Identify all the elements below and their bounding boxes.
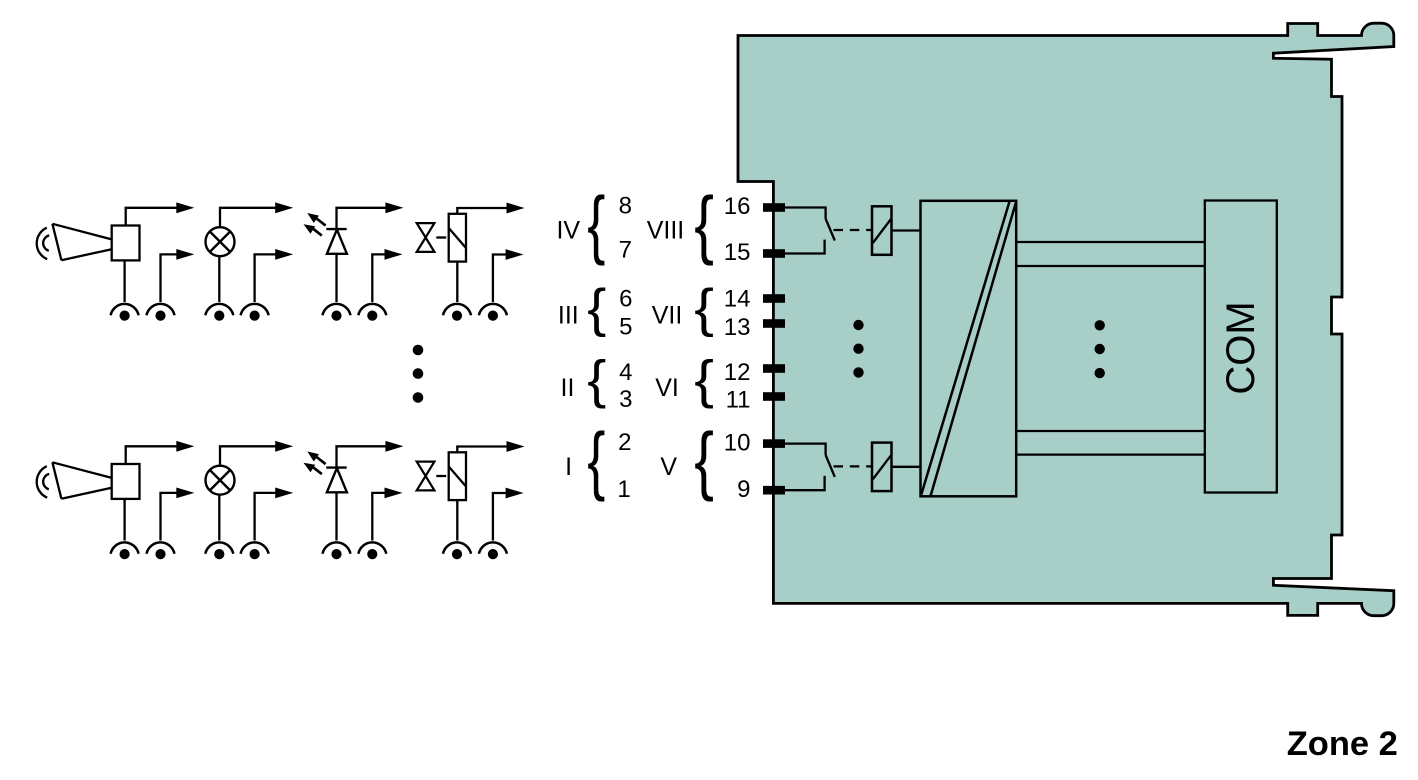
LED emission arrow 1 (307, 213, 325, 226)
solenoid coil Y2 (449, 452, 466, 500)
svg-text:10: 10 (724, 430, 751, 457)
svg-text:13: 13 (724, 314, 751, 341)
arrow (176, 488, 194, 499)
wire LED to terminal (335, 492, 337, 540)
wire from terminal 16 to switch S1 (785, 208, 826, 219)
switch S2 blade (826, 455, 835, 477)
LED emission arrow 1 (307, 452, 325, 465)
wire solenoid to arrow (457, 208, 507, 214)
arrow (176, 202, 194, 213)
terminal 10 (763, 439, 785, 448)
terminal b2 (241, 304, 269, 321)
terminal f2 (241, 542, 269, 559)
svg-text:{: { (587, 349, 606, 409)
terminal c1 (323, 304, 351, 321)
svg-text:IV: IV (556, 216, 580, 244)
svg-text:15: 15 (724, 239, 751, 266)
valve Y2 (417, 462, 435, 491)
wire terminal d2 to arrow (493, 255, 506, 303)
svg-text:V: V (660, 453, 677, 481)
arrow (507, 203, 525, 214)
terminal a2 (147, 304, 175, 321)
switch S1 blade (826, 219, 835, 241)
LED V1 (326, 229, 347, 254)
svg-text:{: { (587, 278, 606, 338)
svg-text:1: 1 (617, 476, 630, 503)
COM interface block (1205, 201, 1277, 493)
terminal 16 (763, 203, 785, 212)
svg-text:4: 4 (619, 359, 632, 386)
svg-text:Zone 2: Zone 2 (1287, 725, 1398, 763)
svg-text:I: I (565, 453, 572, 481)
terminal d2 (479, 304, 507, 321)
dash valve to solenoid (436, 236, 446, 238)
terminal 11 (763, 392, 785, 401)
terminal 15 (763, 249, 785, 258)
svg-text:{: { (694, 349, 714, 409)
isolator amplifier U1 (921, 201, 1017, 497)
wire lamp to arrow (220, 208, 276, 227)
terminal b1 (205, 304, 233, 321)
arrow (385, 202, 403, 213)
wire solenoid to arrow (457, 447, 507, 453)
wire LED to terminal (335, 254, 337, 302)
wire from terminal 10 to switch S2 (785, 444, 826, 455)
ellipsis dots left channel column (853, 320, 863, 378)
wire LED to arrow (337, 208, 387, 229)
wire terminal c2 to arrow (372, 254, 385, 302)
wire terminal h2 to arrow (493, 493, 506, 541)
output driver K2 (872, 443, 892, 492)
svg-text:VIII: VIII (647, 216, 685, 244)
horn LS2 (37, 462, 140, 499)
arrow (275, 441, 293, 452)
arrow (506, 488, 524, 499)
dash valve to solenoid (436, 475, 446, 477)
terminal g1 (323, 542, 351, 559)
svg-text:7: 7 (619, 237, 632, 264)
svg-text:VII: VII (652, 302, 683, 330)
arrow (385, 441, 403, 452)
svg-text:{: { (694, 278, 714, 338)
ellipsis dots middle column (1095, 320, 1105, 378)
wire lamp to terminal (218, 495, 220, 541)
solenoid coil Y1 (449, 214, 466, 262)
wire terminal g2 to arrow (372, 493, 385, 541)
ellipsis dots between rows (413, 345, 424, 403)
svg-text:6: 6 (619, 286, 632, 313)
svg-text:{: { (587, 180, 605, 265)
wire solenoid to terminal (456, 500, 458, 540)
terminal h1 (443, 542, 471, 559)
wire terminal f2 to arrow (255, 493, 276, 541)
arrow (176, 249, 194, 260)
svg-text:5: 5 (619, 313, 632, 340)
terminal 9 (763, 486, 785, 495)
wire horn to terminal (123, 499, 125, 541)
svg-text:16: 16 (724, 193, 751, 220)
horn LS1 (37, 224, 140, 261)
arrow (385, 488, 403, 499)
bus wires U1 to COM (lower pair) (1016, 431, 1205, 455)
terminal 12 (763, 364, 785, 373)
svg-text:{: { (587, 416, 605, 501)
valve Y1 (417, 223, 435, 252)
wire from terminal 15 to switch S1 fixed contact (785, 240, 825, 254)
svg-text:{: { (694, 417, 714, 502)
output driver K1 (872, 206, 892, 255)
arrow (275, 488, 293, 499)
wire horn to terminal (123, 260, 125, 302)
svg-text:3: 3 (619, 386, 632, 413)
svg-text:14: 14 (724, 286, 751, 313)
arrow (176, 441, 194, 452)
wire lamp to arrow (220, 446, 276, 465)
wire terminal e2 to arrow (161, 493, 178, 541)
svg-text:III: III (558, 302, 579, 330)
LED emission arrow 2 (304, 224, 322, 235)
terminal c2 (358, 304, 386, 321)
terminal g2 (358, 542, 386, 559)
terminal 13 (763, 319, 785, 328)
terminal e2 (147, 542, 175, 559)
wire horn to arrow (126, 208, 177, 226)
module body (Zone 2 isolated barrier housing) (738, 23, 1394, 616)
terminal d1 (443, 304, 471, 321)
svg-text:8: 8 (619, 192, 632, 219)
svg-text:12: 12 (724, 359, 751, 386)
arrow (275, 249, 293, 260)
wire lamp to terminal (218, 256, 220, 302)
wire terminal b2 to arrow (255, 254, 276, 302)
wire LED to arrow (337, 446, 387, 467)
lamp E2 (206, 466, 235, 495)
svg-text:9: 9 (737, 476, 750, 503)
wire terminal a2 to arrow (161, 254, 178, 302)
svg-text:COM: COM (1219, 301, 1263, 394)
arrow (385, 249, 403, 260)
dashed actuator link S2 to K2 (834, 465, 872, 467)
terminal e1 (111, 542, 139, 559)
arrow (506, 249, 524, 260)
wire solenoid to terminal (456, 262, 458, 302)
arrow (507, 441, 525, 452)
terminal a1 (111, 304, 139, 321)
arrow (275, 202, 293, 213)
wire from terminal 9 to switch S2 fixed contact (785, 476, 825, 490)
wire horn to arrow (126, 446, 177, 464)
terminal f1 (205, 542, 233, 559)
svg-text:11: 11 (726, 386, 751, 413)
svg-text:2: 2 (618, 429, 631, 456)
LED V2 (326, 468, 347, 493)
svg-text:VI: VI (655, 374, 679, 402)
LED emission arrow 2 (304, 463, 322, 474)
lamp E1 (206, 227, 235, 256)
dashed actuator link S1 to K1 (834, 229, 872, 231)
wire K1 to isolator U1 (892, 229, 921, 231)
terminal 14 (763, 294, 785, 303)
svg-text:II: II (561, 374, 575, 402)
bus wires U1 to COM (upper pair) (1016, 242, 1205, 266)
terminal h2 (479, 542, 507, 559)
wire K2 to isolator U1 (892, 466, 921, 468)
svg-text:{: { (694, 181, 714, 266)
